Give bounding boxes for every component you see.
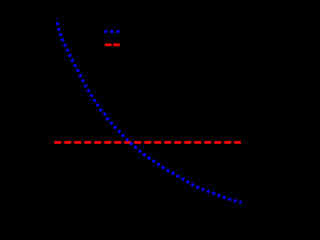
legend blue dotted sample	[104, 30, 120, 33]
blue dotted decay curve	[57, 19, 242, 203]
red dashed horizontal threshold line	[54, 141, 241, 144]
legend red dashed sample	[105, 43, 120, 46]
